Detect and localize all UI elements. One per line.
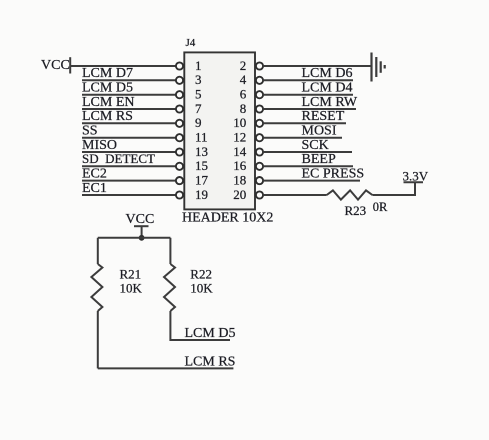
pin numbers left column bbox=[195, 58, 209, 202]
svg-text:SCK: SCK bbox=[302, 138, 329, 153]
wire pin20 to resistor R23 bbox=[263, 194, 326, 196]
svg-text:J4: J4 bbox=[186, 37, 196, 49]
wire pin19 bbox=[82, 194, 176, 196]
wire pin10 bbox=[263, 122, 346, 124]
svg-text:LCM RS: LCM RS bbox=[82, 109, 133, 124]
svg-text:5: 5 bbox=[195, 87, 202, 102]
wire pin5 bbox=[82, 94, 176, 96]
svg-text:VCC: VCC bbox=[126, 212, 155, 227]
svg-text:16: 16 bbox=[233, 158, 247, 173]
pin numbers right column bbox=[233, 58, 247, 202]
svg-text:18: 18 bbox=[233, 173, 246, 188]
svg-text:3: 3 bbox=[195, 72, 202, 87]
wire pin3 bbox=[82, 79, 176, 81]
svg-text:10K: 10K bbox=[120, 281, 143, 296]
wire pin18 bbox=[263, 180, 360, 182]
power port VCC (top-left) bbox=[69, 57, 71, 73]
svg-text:BEEP: BEEP bbox=[302, 152, 336, 167]
connector J4 body bbox=[184, 52, 255, 209]
svg-text:20: 20 bbox=[233, 187, 246, 202]
wire pin8 bbox=[263, 108, 356, 110]
svg-text:15: 15 bbox=[195, 158, 208, 173]
junction dot bbox=[139, 235, 145, 241]
wire VCC stub bbox=[141, 226, 143, 238]
VCC port bar bbox=[134, 225, 149, 227]
svg-text:12: 12 bbox=[233, 130, 246, 145]
wire pin2 to ground bbox=[263, 65, 371, 67]
wire pin1 (VCC to pin 1) bbox=[70, 65, 176, 67]
wire pin14 bbox=[263, 151, 352, 153]
svg-text:EC1: EC1 bbox=[82, 181, 107, 196]
wire pin11 bbox=[82, 137, 176, 139]
svg-text:EC PRESS: EC PRESS bbox=[302, 166, 365, 181]
svg-text:0R: 0R bbox=[373, 200, 388, 214]
svg-text:RESET: RESET bbox=[302, 109, 345, 124]
svg-text:LCM EN: LCM EN bbox=[82, 95, 135, 110]
svg-text:19: 19 bbox=[195, 187, 208, 202]
pin circles left (1,3,...,19) bbox=[176, 62, 183, 198]
wire right branch down to R22 bbox=[169, 238, 171, 264]
resistor R22 (zigzag) bbox=[164, 264, 175, 311]
svg-text:7: 7 bbox=[195, 101, 202, 116]
svg-text:R22: R22 bbox=[190, 266, 212, 281]
wire R21 down to bottom rail bbox=[97, 311, 99, 368]
wire left branch down to R21 bbox=[97, 238, 99, 264]
wire pin17 bbox=[82, 180, 176, 182]
svg-text:6: 6 bbox=[240, 87, 247, 102]
wire bottom rail to LCM RS bbox=[98, 367, 234, 369]
power port 3.3V (bar) bbox=[404, 181, 424, 183]
resistor R21 (zigzag) bbox=[91, 264, 102, 311]
svg-text:LCM RW: LCM RW bbox=[302, 95, 358, 110]
wire pin15 bbox=[82, 165, 176, 167]
svg-text:14: 14 bbox=[233, 144, 247, 159]
wire pin12 bbox=[263, 137, 342, 139]
svg-text:4: 4 bbox=[240, 72, 247, 87]
svg-text:LCM D6: LCM D6 bbox=[302, 66, 353, 81]
svg-text:17: 17 bbox=[195, 173, 209, 188]
wire pin9 bbox=[82, 122, 176, 124]
svg-text:LCM D7: LCM D7 bbox=[82, 66, 133, 81]
wire pin4 bbox=[263, 79, 353, 81]
svg-text:SS: SS bbox=[82, 124, 98, 139]
svg-text:1: 1 bbox=[195, 58, 202, 73]
wire pin13 bbox=[82, 151, 176, 153]
svg-text:10K: 10K bbox=[190, 281, 213, 296]
wire pin7 bbox=[82, 108, 176, 110]
svg-text:3.3V: 3.3V bbox=[403, 168, 429, 183]
wire resistor to 3.3V bbox=[372, 182, 415, 195]
svg-text:9: 9 bbox=[195, 115, 202, 130]
wire pin6 bbox=[263, 94, 353, 96]
pin circles right (2,4,...,20) bbox=[256, 62, 263, 198]
svg-text:VCC: VCC bbox=[41, 58, 70, 73]
svg-text:LCM D4: LCM D4 bbox=[302, 81, 353, 96]
svg-text:LCM D5: LCM D5 bbox=[82, 81, 133, 96]
wire R22 down to LCM D5 bbox=[170, 311, 230, 340]
wire horizontal VCC rail bbox=[98, 237, 171, 239]
svg-text:R23: R23 bbox=[345, 203, 367, 218]
svg-text:13: 13 bbox=[195, 144, 208, 159]
svg-text:11: 11 bbox=[195, 130, 208, 145]
svg-text:LCM D5: LCM D5 bbox=[185, 326, 236, 341]
resistor R23 (zigzag) bbox=[327, 190, 373, 199]
wire pin16 bbox=[263, 165, 353, 167]
svg-text:LCM RS: LCM RS bbox=[185, 354, 236, 369]
ground symbol bbox=[372, 53, 385, 82]
svg-text:2: 2 bbox=[240, 58, 247, 73]
svg-text:8: 8 bbox=[240, 101, 247, 116]
svg-text:R21: R21 bbox=[120, 266, 142, 281]
svg-text:EC2: EC2 bbox=[82, 166, 107, 181]
svg-text:HEADER 10X2: HEADER 10X2 bbox=[182, 211, 273, 226]
svg-text:SD DETECT: SD DETECT bbox=[82, 151, 155, 166]
svg-text:10: 10 bbox=[233, 115, 246, 130]
svg-text:MOSI: MOSI bbox=[302, 124, 337, 139]
